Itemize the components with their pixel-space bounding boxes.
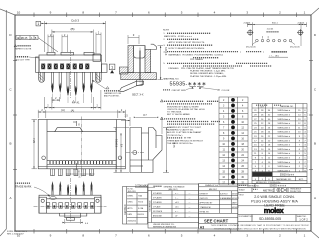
footer revision note xyxy=(7,231,28,236)
svg-text:—: — xyxy=(189,211,191,213)
datum feature control frame xyxy=(16,36,58,53)
svg-text:MATE WITH : 51382-∗∗∗∗: MATE WITH : 51382-∗∗∗∗ xyxy=(164,35,192,38)
svg-text:ADD BY 1 LETTER OF ALPHABET: ADD BY 1 LETTER OF ALPHABET xyxy=(167,131,202,134)
svg-text:HOW TO BE APPLIED BOTH ENDS.: HOW TO BE APPLIED BOTH ENDS. xyxy=(169,47,206,50)
svg-text:55935-0●∗∗: 55935-0●∗∗ xyxy=(277,114,290,117)
svg-text:ODD CKT TYPE: ODD CKT TYPE xyxy=(15,59,30,61)
disclaimer xyxy=(211,224,310,230)
small dims 2±0.1 xyxy=(41,23,101,53)
svg-text:—: — xyxy=(189,197,191,199)
svg-text:Ø1.2±0.05: Ø1.2±0.05 xyxy=(246,47,257,49)
svg-text:(B): (B) xyxy=(71,27,75,31)
svg-text:MM ONLY: MM ONLY xyxy=(209,189,218,191)
svg-text:1: 1 xyxy=(37,22,39,26)
svg-text:NO PLACE: NO PLACE xyxy=(153,210,163,213)
svg-text:4 PLACES: 4 PLACES xyxy=(153,192,162,195)
svg-text:55935-0●∗∗: 55935-0●∗∗ xyxy=(277,157,290,160)
svg-text:55935-0●∗∗: 55935-0●∗∗ xyxy=(277,122,290,125)
title block xyxy=(238,184,311,232)
molex logo xyxy=(238,205,311,207)
section pin xyxy=(139,51,141,80)
svg-text:REFERENCE DIMENSIONS: REFERENCE DIMENSIONS xyxy=(153,227,177,229)
svg-text:MATERIAL NO.: MATERIAL NO. xyxy=(280,105,294,108)
svg-text:MATERIAL NO.: MATERIAL NO. xyxy=(276,178,292,181)
circuit size label xyxy=(163,89,170,91)
svg-text:A: A xyxy=(9,196,11,200)
svg-text:FINISHES PIN : PRE-TIN PLAT: FINISHES PIN : PRE-TIN PLATED, HEAT TREA… xyxy=(169,67,235,70)
side view top dims xyxy=(121,117,162,134)
svg-text:55935-0●∗∗: 55935-0●∗∗ xyxy=(280,174,294,177)
svg-text:FORM J-SD-38 REV.1: FORM J-SD-38 REV.1 xyxy=(7,231,28,233)
svg-text:Y.KOJI: Y.KOJI xyxy=(138,202,144,204)
bottom view centerlines xyxy=(69,178,71,222)
svg-text:PLATING THICKNESS : 1.25μm MIN: PLATING THICKNESS : 1.25μm MIN. xyxy=(190,75,227,78)
side view right dim xyxy=(163,128,169,173)
svg-text:K.OKA: K.OKA xyxy=(138,207,144,210)
svg-text:55935-0●∗∗: 55935-0●∗∗ xyxy=(277,139,290,142)
svg-text:CHK'D.: CHK'D. xyxy=(128,202,134,204)
dim (B) xyxy=(52,30,93,53)
svg-text:±0.5: ±0.5 xyxy=(175,206,178,208)
svg-text:(TO MOLD No.): (TO MOLD No.) xyxy=(167,135,183,137)
svg-text:±0.3: ±0.3 xyxy=(175,202,178,204)
svg-text:PLATING THICKNESS : 1.0μm MIN.: PLATING THICKNESS : 1.0μm MIN. xyxy=(190,70,226,73)
side view centerline xyxy=(126,152,144,154)
svg-text:TECHNOLOGIES, LLC AND SHOULD N: TECHNOLOGIES, LLC AND SHOULD NOT BE USED… xyxy=(214,227,306,230)
third angle projection symbol xyxy=(277,188,287,192)
svg-text:55935-0●∗∗: 55935-0●∗∗ xyxy=(277,135,290,138)
svg-text:1 OF 2: 1 OF 2 xyxy=(299,218,308,222)
general tolerance table xyxy=(148,184,199,228)
dims under front view xyxy=(44,90,101,110)
PCB pattern small holes xyxy=(256,39,292,42)
svg-text:APP'D.: APP'D. xyxy=(128,207,134,210)
svg-text:55935-0●∗∗: 55935-0●∗∗ xyxy=(277,165,290,168)
svg-text:E.ASAKAWA: E.ASAKAWA xyxy=(220,197,231,200)
svg-text:2±0.05: 2±0.05 xyxy=(267,29,274,31)
svg-text:NUMBERS (*) CAVITY NO.: NUMBERS (*) CAVITY NO. xyxy=(167,129,194,132)
svg-text:Ø1.2±0.05: Ø1.2±0.05 xyxy=(290,47,301,49)
svg-text:STAMPED BY 1 DIGIT TO 2 DIGIT: STAMPED BY 1 DIGIT TO 2 DIGIT xyxy=(167,126,202,129)
rear view bottom dim xyxy=(66,173,95,175)
PCB pattern big holes xyxy=(247,29,304,36)
svg-text:SECT. X-X: SECT. X-X xyxy=(132,94,144,97)
svg-text:—: — xyxy=(189,193,191,195)
warning notes lower xyxy=(164,101,220,138)
svg-text:molex: molex xyxy=(264,206,285,215)
svg-text:THE MARK OF MOLD No.: THE MARK OF MOLD No. xyxy=(167,142,193,145)
parts table footer rows xyxy=(252,177,307,184)
svg-text:AND POLISH NO.: AND POLISH NO. xyxy=(104,95,120,98)
svg-text:MOUNTED BY 4 AND 12 MORE: MOUNTED BY 4 AND 12 MORE xyxy=(167,105,199,108)
rear view left dim xyxy=(32,120,38,169)
bottom view body xyxy=(39,195,101,220)
svg-text:DRWN BY: DRWN BY xyxy=(200,193,209,195)
svg-text:05/02/14: 05/02/14 xyxy=(137,214,144,216)
svg-text:DRAWN STYLE: DRAWN STYLE xyxy=(205,184,219,187)
svg-text:LAST NO.: LAST NO. xyxy=(257,173,267,176)
svg-text:(A): (A) xyxy=(71,108,75,112)
svg-text:REFER TO NOTE: REFER TO NOTE xyxy=(15,48,32,50)
trademark callout xyxy=(50,197,56,200)
svg-text:55935-0●∗∗: 55935-0●∗∗ xyxy=(277,126,290,129)
section dims xyxy=(128,35,163,80)
PCB layout label xyxy=(272,51,288,53)
rear view slot ticks xyxy=(50,161,112,164)
front view body xyxy=(36,52,108,72)
svg-text:CIRCUITS OF A WIRE DIP TAIL HO: CIRCUITS OF A WIRE DIP TAIL HOLE xyxy=(167,108,205,111)
rear view outline xyxy=(38,120,125,169)
svg-text:C±0.3: C±0.3 xyxy=(71,18,79,22)
svg-text:1 PLACE: 1 PLACE xyxy=(153,205,161,208)
svg-text:—: — xyxy=(189,216,191,218)
svg-text:NOTE: NOTE xyxy=(163,29,170,31)
keying triangle marker xyxy=(110,70,114,73)
note label left xyxy=(14,45,32,62)
svg-text:—: — xyxy=(189,206,191,208)
svg-text:CHK'D BY: CHK'D BY xyxy=(200,198,209,200)
pin extension lines xyxy=(52,94,91,104)
svg-text:7.25: 7.25 xyxy=(32,138,36,144)
svg-text:± —: ± — xyxy=(175,211,178,213)
front view centerline xyxy=(69,50,71,98)
dim C±0.3 xyxy=(44,21,105,62)
svg-text:CIRCUIT SIZE: CIRCUIT SIZE xyxy=(172,90,187,92)
post hatch marks xyxy=(39,74,100,82)
bottom view small dim xyxy=(65,219,81,224)
section cut X-X arrows xyxy=(73,121,77,170)
svg-text:55935-0●∗∗: 55935-0●∗∗ xyxy=(277,131,290,134)
svg-text:APPROVED BY: APPROVED BY xyxy=(200,201,214,204)
svg-text:JE05-1059: JE05-1059 xyxy=(128,191,136,193)
section X-X view xyxy=(119,44,156,91)
rear view legs xyxy=(51,169,94,176)
svg-text:SD-55935-005: SD-55935-005 xyxy=(259,217,281,221)
svg-text:Ø0.25: Ø0.25 xyxy=(21,37,28,40)
svg-text:± —: ± — xyxy=(175,193,178,195)
svg-text:SCALE: SCALE xyxy=(239,189,246,192)
revision stamp box xyxy=(123,187,148,225)
svg-text:55935-0●∗∗: 55935-0●∗∗ xyxy=(277,152,290,155)
bottom view pins xyxy=(52,185,92,196)
svg-text:A.KITOU: A.KITOU xyxy=(220,192,228,195)
svg-text:(A): (A) xyxy=(61,108,65,112)
svg-text:TITLE: TITLE xyxy=(239,195,245,197)
svg-text:2 PLACES: 2 PLACES xyxy=(153,201,162,204)
svg-text:± —: ± — xyxy=(175,197,178,199)
svg-text:2005/02/14: 2005/02/14 xyxy=(128,221,137,223)
svg-text:PIN : BRASS: PIN : BRASS xyxy=(190,58,203,61)
side view profile xyxy=(130,128,162,173)
svg-text:BUT 17 SHOW JAPAN.: BUT 17 SHOW JAPAN. xyxy=(167,113,190,116)
svg-text:A3: A3 xyxy=(200,225,204,229)
approval block xyxy=(199,184,238,230)
svg-text:PROJECTION: PROJECTION xyxy=(290,191,302,193)
svg-text:NICKEL UNDERPLATE OVERALL,: NICKEL UNDERPLATE OVERALL, xyxy=(190,72,225,75)
svg-text:ANGULAR: ANGULAR xyxy=(153,215,162,218)
svg-text:TOLERANCE: TOLERANCE xyxy=(149,200,152,212)
boxed ref 1 with leader xyxy=(36,21,41,26)
svg-text:10: 10 xyxy=(17,10,21,14)
svg-text:2±0.05: 2±0.05 xyxy=(298,22,305,24)
svg-text:B: B xyxy=(314,142,316,146)
parts number table xyxy=(252,104,307,172)
svg-text:55935-∗∗∗∗: 55935-∗∗∗∗ xyxy=(270,184,288,188)
svg-text:DATE: DATE xyxy=(232,201,237,204)
svg-text:TRADE MARK: TRADE MARK xyxy=(15,186,32,189)
front view solder pins xyxy=(51,72,92,95)
rear view centerline xyxy=(81,117,83,172)
svg-text:MATERIALS HOUSING : POLYESTE: MATERIALS HOUSING : POLYESTER(PBT) UL94V… xyxy=(169,54,224,57)
svg-text:(MM ONLY): (MM ONLY) xyxy=(168,189,178,191)
title text xyxy=(251,195,298,208)
svg-text:MATERIAL NO.: MATERIAL NO. xyxy=(247,184,260,187)
last no row xyxy=(252,172,307,177)
bottom view cavities xyxy=(46,203,94,209)
notes block xyxy=(163,29,234,80)
svg-text:COLOR: COLOR xyxy=(222,90,230,92)
svg-text:METRIC: METRIC xyxy=(263,189,274,193)
PCB hole labels xyxy=(252,42,256,45)
svg-text:2±0.05: 2±0.05 xyxy=(244,22,251,24)
parts table header xyxy=(256,105,294,109)
svg-text:T.SAI: T.SAI xyxy=(138,195,143,198)
front view pin blades xyxy=(51,83,92,97)
recommended PCB layout xyxy=(247,22,306,46)
svg-text:55935-0●∗∗: 55935-0●∗∗ xyxy=(277,148,290,151)
svg-text:55935-0●∗∗: 55935-0●∗∗ xyxy=(277,161,290,164)
svg-text:9.3±0.3: 9.3±0.3 xyxy=(114,139,117,148)
svg-text:REV. J 2003/10/07: REV. J 2003/10/07 xyxy=(7,234,24,236)
svg-text:SEE CHART: SEE CHART xyxy=(204,219,229,224)
svg-text:3 PLACES: 3 PLACES xyxy=(153,196,162,199)
front view mounting posts xyxy=(39,72,102,82)
svg-text:A: A xyxy=(314,196,316,200)
svg-text:THIS DRAWING CONTAINS INFORMAT: THIS DRAWING CONTAINS INFORMATION THAT I… xyxy=(211,224,310,227)
circuit size / color table xyxy=(219,97,248,185)
svg-text:B±0.1: B±0.1 xyxy=(272,22,278,24)
svg-text:EXT.: EXT. xyxy=(299,179,304,181)
front view contacts xyxy=(41,64,89,70)
color label xyxy=(218,89,221,91)
svg-text:55935-0●∗∗: 55935-0●∗∗ xyxy=(277,144,290,147)
svg-text:—: — xyxy=(189,202,191,204)
notes japanese lines xyxy=(167,33,272,66)
svg-text:APPLY EVEN CIRCUIT PRODUCTS.: APPLY EVEN CIRCUIT PRODUCTS. xyxy=(169,41,206,44)
svg-text:X: X xyxy=(78,122,80,126)
svg-text:MATERIAL NO.: MATERIAL NO. xyxy=(164,77,180,80)
svg-text:X: X xyxy=(78,170,80,174)
svg-text:±3°: ±3° xyxy=(175,216,178,218)
circled mold numbers xyxy=(231,98,235,184)
svg-text:GENERAL TOLERANCE: GENERAL TOLERANCE xyxy=(164,185,186,188)
balloon 1 flag xyxy=(109,64,115,71)
svg-text:T.TANIGUCHI: T.TANIGUCHI xyxy=(200,206,212,209)
svg-text:REVISED: REVISED xyxy=(124,204,127,215)
side view left dims xyxy=(114,128,130,173)
svg-text:DOCUMENT NO.: DOCUMENT NO. xyxy=(239,216,254,218)
svg-text:B: B xyxy=(9,142,11,146)
carrier cutoff note xyxy=(104,91,122,98)
svg-text:55935-0●∗∗: 55935-0●∗∗ xyxy=(277,118,290,121)
svg-text:INITIAL NO.: INITIAL NO. xyxy=(200,210,210,213)
svg-text:55935-0●∗∗: 55935-0●∗∗ xyxy=(277,109,290,112)
svg-text:DRWN.: DRWN. xyxy=(128,196,134,198)
rear view top dim xyxy=(38,110,125,118)
svg-text:THERE ARE PRODUCTS WITHOUT: THERE ARE PRODUCTS WITHOUT xyxy=(167,139,204,142)
